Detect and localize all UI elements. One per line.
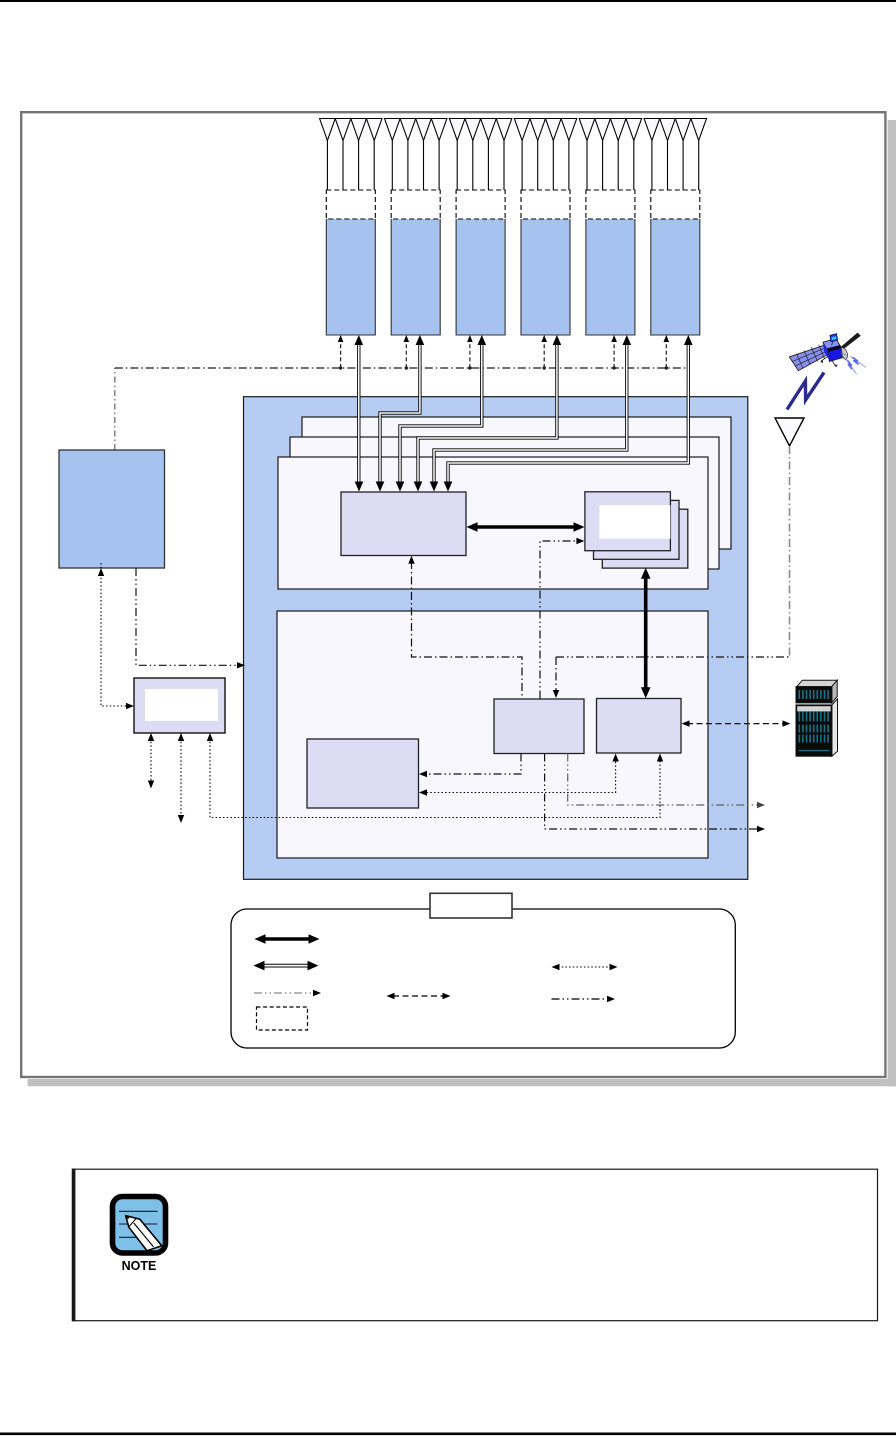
svg-text:NOTE: NOTE bbox=[122, 1259, 157, 1273]
